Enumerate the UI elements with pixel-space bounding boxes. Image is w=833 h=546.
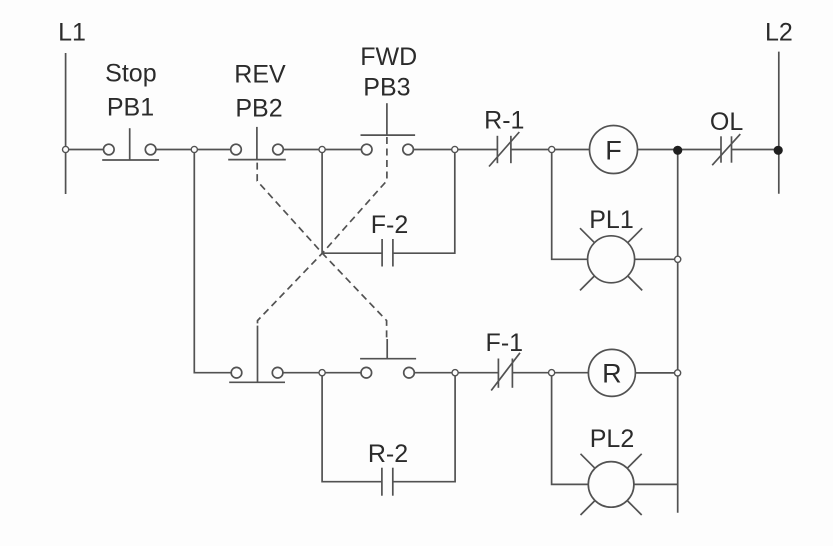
wire PB3 to R-1 — [413, 149, 497, 151]
node dot at L2 — [774, 146, 783, 155]
svg-text:L1: L1 — [58, 18, 86, 46]
pushbutton PB3 lower contact — [361, 367, 372, 378]
contact F-1 (NC) — [497, 359, 499, 388]
wire F-2 branch — [322, 150, 382, 254]
coil F — [590, 126, 638, 174]
wire R-2 branch — [322, 373, 382, 482]
node J4 — [549, 146, 555, 152]
svg-text:PB1: PB1 — [107, 94, 154, 122]
wire F-1 to coil R — [512, 372, 588, 374]
mechanical link dashed PB2 to PB3b — [257, 163, 386, 339]
pilot light PL2 — [588, 462, 634, 508]
wire PB1 to PB2 — [156, 149, 231, 151]
svg-text:OL: OL — [710, 108, 743, 136]
svg-text:Stop: Stop — [105, 59, 156, 87]
svg-text:F: F — [605, 135, 622, 165]
node Jb lower — [452, 370, 458, 376]
svg-text:F-2: F-2 — [371, 211, 409, 239]
svg-text:L2: L2 — [765, 19, 793, 47]
node dot after coil F — [673, 146, 682, 155]
svg-text:R-2: R-2 — [368, 440, 408, 468]
svg-text:R: R — [602, 359, 622, 389]
pilot light PL1 — [588, 236, 635, 283]
power rail L1 — [65, 53, 67, 194]
svg-text:PB3: PB3 — [363, 74, 410, 102]
svg-text:PL1: PL1 — [589, 206, 633, 234]
node J2 — [319, 146, 325, 152]
wire PB2 to PB3 — [283, 149, 361, 151]
svg-text:FWD: FWD — [360, 43, 417, 71]
node J3 — [452, 146, 458, 152]
svg-text:REV: REV — [234, 61, 286, 89]
wire coil F to OL — [638, 149, 722, 151]
wire coil R to right bus — [635, 372, 677, 374]
node J1 — [191, 146, 197, 152]
wire PL2 branch — [552, 373, 589, 485]
node Jc lower — [549, 370, 555, 376]
wire lower rung PB2b to PB3b — [283, 372, 361, 374]
overload contact OL — [720, 136, 722, 162]
wire PL1 branch — [552, 150, 588, 260]
wire lower rung PB3b to F-1 — [414, 372, 498, 374]
wire top rung segment L1 to PB1 — [66, 149, 104, 151]
wire branch from node J1 down to lower rung — [194, 150, 231, 373]
power rail L2 — [778, 52, 780, 194]
coil R — [588, 349, 635, 396]
pushbutton PB2 top contact (REV, NC) — [231, 144, 242, 155]
node Ja lower — [319, 370, 325, 376]
node R-bus — [675, 370, 681, 376]
mechanical link dashed PB3 to PB2b — [258, 137, 387, 327]
node PL1-bus — [675, 256, 681, 262]
svg-text:PB2: PB2 — [235, 95, 282, 123]
pushbutton PB3 top contact (FWD, NO) — [361, 144, 372, 155]
contact R-2 — [381, 468, 383, 496]
wire right bus vertical — [677, 150, 679, 513]
pushbutton PB2 lower contact (NO) — [231, 367, 242, 378]
pushbutton PB1 (Stop, NC) — [104, 144, 115, 155]
wire OL to L2 — [732, 149, 779, 151]
contact R-1 (NC) — [496, 136, 498, 163]
svg-text:F-1: F-1 — [486, 329, 524, 357]
svg-text:PL2: PL2 — [590, 425, 634, 453]
wire R-1 to coil F — [511, 149, 590, 151]
node L1-junction — [63, 146, 69, 152]
contact F-2 — [381, 239, 383, 267]
svg-text:R-1: R-1 — [484, 107, 524, 135]
